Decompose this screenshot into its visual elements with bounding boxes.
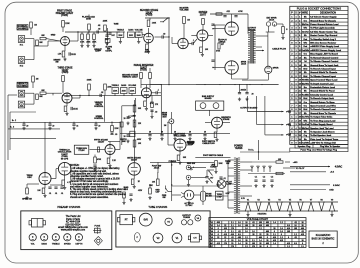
svg-text:GND: GND xyxy=(329,189,334,191)
svg-text:BASS: BASS xyxy=(121,84,127,87)
svg-text:Org: Org xyxy=(304,135,307,137)
svg-text:To Vibrato Channel Input: To Vibrato Channel Input xyxy=(310,75,336,78)
svg-text:20: 20 xyxy=(189,131,191,133)
svg-text:STRIP: STRIP xyxy=(217,197,223,199)
svg-text:22: 22 xyxy=(259,234,261,236)
svg-text:KALAMAZOO: KALAMAZOO xyxy=(316,234,331,237)
svg-text:FOOT SWITCH CABLE: FOOT SWITCH CABLE xyxy=(203,154,224,157)
svg-text:.02: .02 xyxy=(98,29,101,31)
svg-text:.01: .01 xyxy=(61,193,64,195)
svg-text:TREBLE: TREBLE xyxy=(52,244,60,246)
svg-text:and related supplier cross ref: and related supplier cross references. xyxy=(70,185,109,188)
svg-text:35: 35 xyxy=(266,240,268,242)
svg-text:Grn: Grn xyxy=(304,54,307,56)
svg-text:495: 495 xyxy=(266,243,269,245)
svg-text:VOLUME: VOLUME xyxy=(135,30,144,32)
svg-text:165: 165 xyxy=(294,228,297,230)
svg-text:TRANS: TRANS xyxy=(235,147,243,150)
svg-text:+495: +495 xyxy=(286,111,292,113)
svg-text:460: 460 xyxy=(301,228,304,230)
svg-text:28: 28 xyxy=(245,240,247,242)
svg-text:1.2: 1.2 xyxy=(245,246,248,248)
svg-text:-52: -52 xyxy=(238,231,241,233)
svg-text:20: 20 xyxy=(98,126,100,128)
svg-text:CABLE PLUG: CABLE PLUG xyxy=(272,47,286,50)
svg-text:Blk: Blk xyxy=(304,35,307,37)
svg-text:SPEED: SPEED xyxy=(64,244,71,246)
svg-text:220K: 220K xyxy=(103,21,108,23)
svg-text:+460VDC Screen Supply Lead: +460VDC Screen Supply Lead xyxy=(310,49,342,52)
svg-text:TREBLE: TREBLE xyxy=(117,30,125,32)
svg-text:OUTPUT BOARD: OUTPUT BOARD xyxy=(240,106,257,109)
svg-text:28: 28 xyxy=(259,246,261,248)
svg-text:100K: 100K xyxy=(152,23,157,25)
svg-text:V2: V2 xyxy=(257,200,259,202)
svg-text:BOARD: BOARD xyxy=(205,97,213,100)
svg-text:C1: C1 xyxy=(255,177,257,179)
svg-text:STAGE: STAGE xyxy=(223,118,230,121)
svg-text:18: 18 xyxy=(301,222,303,224)
svg-text:VOLUME: VOLUME xyxy=(128,85,137,87)
svg-text:Blu: Blu xyxy=(304,57,307,59)
svg-text:ohm/volt VTVM meter set accord: ohm/volt VTVM meter set accordingly. xyxy=(70,180,109,183)
svg-text:170: 170 xyxy=(224,243,227,245)
svg-text:0: 0 xyxy=(274,231,275,233)
svg-text:170: 170 xyxy=(252,246,255,248)
svg-text:0.9: 0.9 xyxy=(287,225,290,227)
svg-text:(7025): (7025) xyxy=(62,72,69,74)
svg-text:1.6: 1.6 xyxy=(238,225,241,227)
svg-text:25/25: 25/25 xyxy=(73,109,78,111)
svg-text:20: 20 xyxy=(252,94,254,96)
svg-text:Footswitch Return Lead: Footswitch Return Lead xyxy=(310,86,335,89)
svg-text:Speed Control Wiper Lead: Speed Control Wiper Lead xyxy=(310,79,338,82)
svg-text:495: 495 xyxy=(238,237,241,239)
svg-text:TO PILOT: TO PILOT xyxy=(295,168,305,170)
svg-text:100K: 100K xyxy=(87,80,92,82)
svg-text:20: 20 xyxy=(204,131,206,133)
svg-text:2.1: 2.1 xyxy=(273,234,276,236)
svg-text:.05: .05 xyxy=(115,134,118,136)
svg-text:Blk: Blk xyxy=(304,17,307,19)
svg-text:To Trem Bug Lamp Lead: To Trem Bug Lamp Lead xyxy=(310,120,336,122)
svg-text:120PF: 120PF xyxy=(95,51,101,53)
svg-text:35: 35 xyxy=(231,243,233,245)
svg-text:415: 415 xyxy=(224,234,227,236)
svg-text:12AT7: 12AT7 xyxy=(200,13,207,16)
svg-text:2.1: 2.1 xyxy=(231,222,234,224)
svg-text:Wht: Wht xyxy=(304,119,308,122)
svg-text:1.4: 1.4 xyxy=(273,222,276,224)
svg-text:0: 0 xyxy=(267,246,268,248)
svg-text:28: 28 xyxy=(252,234,254,236)
svg-text:28: 28 xyxy=(301,225,303,227)
svg-text:(7025): (7025) xyxy=(146,15,153,17)
svg-text:18: 18 xyxy=(301,240,303,242)
svg-text:1.6: 1.6 xyxy=(238,222,241,224)
svg-text:12AX7: 12AX7 xyxy=(131,159,138,162)
svg-text:Blk: Blk xyxy=(304,131,307,133)
svg-text:+495VDC Plate Supply Lead: +495VDC Plate Supply Lead xyxy=(310,45,339,48)
svg-text:20/450: 20/450 xyxy=(241,89,247,91)
svg-text:Intensity Control Lead: Intensity Control Lead xyxy=(310,93,334,96)
svg-text:2.1: 2.1 xyxy=(231,225,234,227)
svg-text:V6: V6 xyxy=(299,200,301,202)
svg-text:.01: .01 xyxy=(49,193,52,195)
svg-text:Wht: Wht xyxy=(304,42,308,45)
svg-text:20: 20 xyxy=(52,126,54,128)
svg-text:6V6: 6V6 xyxy=(144,220,149,222)
svg-text:IN 1: IN 1 xyxy=(20,44,23,46)
svg-text:Ground Return To Buss: Ground Return To Buss xyxy=(310,101,335,104)
svg-text:Blk: Blk xyxy=(304,113,307,115)
svg-text:Blu: Blu xyxy=(304,139,307,141)
svg-text:BASS 30 SCHEMATIC: BASS 30 SCHEMATIC xyxy=(312,238,335,241)
svg-text:25/25: 25/25 xyxy=(71,54,76,56)
svg-text:1.2: 1.2 xyxy=(245,237,248,239)
svg-text:1.6: 1.6 xyxy=(238,240,241,242)
svg-text:28: 28 xyxy=(259,243,261,245)
svg-text:CONTROL: CONTROL xyxy=(94,106,104,108)
svg-text:28: 28 xyxy=(252,225,254,227)
svg-text:ADJ: ADJ xyxy=(124,188,128,191)
svg-text:.047: .047 xyxy=(111,35,115,37)
svg-text:6.3VAC: 6.3VAC xyxy=(333,184,341,187)
svg-text:415: 415 xyxy=(287,243,290,245)
svg-text:Shld: Shld xyxy=(303,68,307,70)
svg-text:170: 170 xyxy=(231,246,234,248)
svg-text:V9: V9 xyxy=(331,200,333,202)
svg-text:V8: V8 xyxy=(320,200,322,202)
svg-text:415: 415 xyxy=(273,240,276,242)
svg-text:250K: 250K xyxy=(121,141,126,143)
svg-text:To Pilot Light Assembly: To Pilot Light Assembly xyxy=(310,27,335,30)
svg-text:Blk/Grn: Blk/Grn xyxy=(302,24,309,26)
svg-text:V7: V7 xyxy=(310,200,312,202)
svg-text:+430: +430 xyxy=(286,135,292,137)
svg-text:28: 28 xyxy=(231,240,233,242)
svg-text:chassis and control panel asse: chassis and control panel assemblies. xyxy=(70,196,109,199)
svg-text:Red: Red xyxy=(303,46,307,48)
svg-text:410: 410 xyxy=(273,237,276,239)
svg-text:-52: -52 xyxy=(252,222,255,224)
svg-text:Grn/Red: Grn/Red xyxy=(302,124,310,126)
svg-text:0: 0 xyxy=(225,240,226,242)
svg-text:18: 18 xyxy=(245,222,247,224)
svg-text:TONE: TONE xyxy=(114,24,120,26)
svg-text:.01: .01 xyxy=(55,193,58,195)
svg-text:495: 495 xyxy=(217,222,220,224)
svg-text:470K: 470K xyxy=(238,11,243,13)
svg-text:Red: Red xyxy=(303,39,307,41)
svg-text:Ground Buss To Chassis: Ground Buss To Chassis xyxy=(310,113,337,115)
svg-text:Grn/Yel: Grn/Yel xyxy=(302,31,309,33)
svg-text:www.parts-ampfix.com: www.parts-ampfix.com xyxy=(61,229,85,232)
svg-text:.01: .01 xyxy=(223,178,225,180)
svg-text:1.4: 1.4 xyxy=(259,240,262,242)
svg-text:Bias Supply -52V To Board: Bias Supply -52V To Board xyxy=(310,54,338,56)
svg-text:1.6: 1.6 xyxy=(245,231,248,233)
svg-text:Wht: Wht xyxy=(304,27,308,30)
svg-text:6.3 VAC Heater Center Tap: 6.3 VAC Heater Center Tap xyxy=(310,30,338,33)
svg-text:1.2: 1.2 xyxy=(280,222,283,224)
svg-text:1M: 1M xyxy=(187,20,190,22)
svg-text:IN 2: IN 2 xyxy=(20,65,23,67)
svg-text:Shld: Shld xyxy=(303,109,307,111)
svg-text:-52: -52 xyxy=(294,237,297,239)
svg-text:170: 170 xyxy=(231,228,234,230)
svg-text:OSC: OSC xyxy=(27,177,32,179)
svg-text:COUPL: COUPL xyxy=(105,51,112,53)
svg-text:PLUG: PLUG xyxy=(188,144,194,146)
svg-text:60 CPS: 60 CPS xyxy=(61,158,69,160)
svg-text:1.2: 1.2 xyxy=(294,234,297,236)
svg-text:0: 0 xyxy=(302,243,303,245)
svg-text:attach to amp knob, everything: attach to amp knob, everything understan… xyxy=(70,191,122,194)
svg-text:1.4: 1.4 xyxy=(217,225,220,227)
svg-text:165: 165 xyxy=(259,222,262,224)
svg-text:1.6: 1.6 xyxy=(280,228,283,230)
svg-text:410: 410 xyxy=(259,225,262,227)
svg-text:V1: V1 xyxy=(247,200,249,202)
svg-text:Wht/Blk: Wht/Blk xyxy=(302,79,309,82)
svg-text:18: 18 xyxy=(294,225,296,227)
svg-text:28: 28 xyxy=(273,228,275,230)
svg-text:2.1: 2.1 xyxy=(252,240,255,242)
svg-text:460: 460 xyxy=(259,237,262,239)
svg-text:6. Plug and socket list are q: 6. Plug and socket list are quoted numbe… xyxy=(70,193,127,196)
svg-text:To Bias Supply Board: To Bias Supply Board xyxy=(310,124,333,126)
svg-text:495: 495 xyxy=(266,225,269,227)
svg-text:DESIGNATION: DESIGNATION xyxy=(320,12,336,15)
svg-text:PLUG & SOCKET CONNECTIONS: PLUG & SOCKET CONNECTIONS xyxy=(297,7,342,11)
svg-text:VTL5C: VTL5C xyxy=(78,150,85,152)
svg-text:NOTES:: NOTES: xyxy=(70,164,80,167)
svg-text:22: 22 xyxy=(217,237,219,239)
svg-text:0: 0 xyxy=(267,237,268,239)
svg-text:-52: -52 xyxy=(301,231,304,233)
svg-text:To Reverb Channel Input: To Reverb Channel Input xyxy=(310,67,336,70)
svg-text:-52V: -52V xyxy=(138,190,143,192)
svg-text:12AX7: 12AX7 xyxy=(98,141,105,144)
svg-text:0: 0 xyxy=(218,228,219,230)
svg-text:+495: +495 xyxy=(293,162,299,164)
svg-text:GND SW: GND SW xyxy=(187,163,195,165)
svg-text:Shld: Shld xyxy=(303,76,307,78)
svg-text:1.4: 1.4 xyxy=(273,243,276,245)
svg-text:Red/Blk: Red/Blk xyxy=(302,94,309,96)
svg-text:1.2: 1.2 xyxy=(280,237,283,239)
svg-text:0: 0 xyxy=(218,234,219,236)
svg-text:0: 0 xyxy=(218,231,219,233)
svg-text:1.2: 1.2 xyxy=(287,246,290,248)
svg-text:4. Use parts list for all com: 4. Use parts list for all component part… xyxy=(70,183,119,186)
svg-text:(7025): (7025) xyxy=(61,15,68,17)
svg-text:.1: .1 xyxy=(193,40,195,42)
svg-text:1.6: 1.6 xyxy=(252,231,255,233)
svg-text:4.8VAC: 4.8VAC xyxy=(335,165,343,168)
svg-text:V4: V4 xyxy=(278,200,280,202)
svg-text:Brn: Brn xyxy=(304,87,307,89)
svg-text:16: 16 xyxy=(76,126,78,128)
svg-text:.02: .02 xyxy=(163,34,166,36)
svg-text:BASS: BASS xyxy=(128,29,134,32)
svg-text:Brn/Wht: Brn/Wht xyxy=(302,116,310,119)
svg-text:Plate Lead To Output Trans: Plate Lead To Output Trans xyxy=(310,138,339,141)
svg-text:Power Plug 1 & 2 Wired To Volt: Power Plug 1 & 2 Wired To Voltage Plug xyxy=(301,149,337,152)
svg-text:CH: CH xyxy=(193,238,197,240)
svg-text:415: 415 xyxy=(217,243,220,245)
svg-text:.02: .02 xyxy=(98,25,101,27)
svg-text:Ground Shield To Panel: Ground Shield To Panel xyxy=(310,91,335,93)
svg-text:0: 0 xyxy=(288,237,289,239)
svg-text:JACK: JACK xyxy=(241,63,247,66)
svg-text:Grn: Grn xyxy=(304,102,307,104)
svg-text:absolute supplies measured at: absolute supplies measured at wall. xyxy=(70,170,107,173)
svg-text:HEATERS: HEATERS xyxy=(258,213,267,216)
svg-text:0.9: 0.9 xyxy=(294,243,297,245)
svg-text:WIRE: WIRE xyxy=(302,13,308,15)
svg-text:500: 500 xyxy=(106,39,109,41)
svg-text:To Speaker Jack Sleeve: To Speaker Jack Sleeve xyxy=(310,131,335,133)
svg-text:2.1: 2.1 xyxy=(301,246,304,248)
svg-text:Grn: Grn xyxy=(304,20,307,22)
svg-text:20: 20 xyxy=(26,126,28,128)
svg-text:415: 415 xyxy=(301,234,304,236)
svg-text:22: 22 xyxy=(224,225,226,227)
svg-text:1M: 1M xyxy=(34,25,37,27)
svg-text:460: 460 xyxy=(266,231,269,233)
svg-text:0.9: 0.9 xyxy=(238,234,241,236)
svg-text:410: 410 xyxy=(231,234,234,236)
svg-text:.02: .02 xyxy=(155,112,158,114)
svg-text:.022: .022 xyxy=(226,11,230,13)
svg-text:Speaker Jack Tip Lead: Speaker Jack Tip Lead xyxy=(310,128,334,130)
svg-text:VOLUME: VOLUME xyxy=(179,10,189,12)
svg-text:C2: C2 xyxy=(263,177,265,179)
svg-text:Blk: Blk xyxy=(304,65,307,67)
svg-text:Blk: Blk xyxy=(304,72,307,74)
svg-text:Ground Buss To Input Jack: Ground Buss To Input Jack xyxy=(310,64,339,67)
svg-text:.02: .02 xyxy=(101,92,104,94)
svg-text:V5: V5 xyxy=(289,200,291,202)
svg-text:2. All capacitors are in mfd: 2. All capacitors are in mfd volts decim… xyxy=(70,172,120,175)
svg-text:SPKR: SPKR xyxy=(273,68,279,70)
svg-text:0: 0 xyxy=(281,234,282,236)
svg-text:1.2: 1.2 xyxy=(259,228,262,230)
svg-text:To Ext Speaker Jack: To Ext Speaker Jack xyxy=(310,134,332,137)
svg-text:To Reverb Channel Lead: To Reverb Channel Lead xyxy=(310,109,336,111)
svg-text:6.3 Volt AC Heater Supply: 6.3 Volt AC Heater Supply xyxy=(310,16,337,19)
svg-text:otherwise specified herein not: otherwise specified herein noted. xyxy=(70,175,104,178)
svg-text:To Normal Channel Control: To Normal Channel Control xyxy=(310,56,338,59)
svg-text:BASS: BASS xyxy=(42,243,48,246)
svg-text:+460: +460 xyxy=(286,124,292,126)
svg-text:495: 495 xyxy=(266,222,269,224)
svg-text:TUBE CHASSIS: TUBE CHASSIS xyxy=(148,205,167,209)
svg-text:To Reverb Output Jack: To Reverb Output Jack xyxy=(310,97,334,100)
svg-text:400V: 400V xyxy=(137,139,142,141)
svg-text:DEPTH: DEPTH xyxy=(76,244,83,246)
svg-text:Speed Control Lead Wire: Speed Control Lead Wire xyxy=(310,105,337,108)
svg-text:Gry: Gry xyxy=(304,106,307,108)
svg-text:BUG: BUG xyxy=(162,116,167,118)
svg-text:20: 20 xyxy=(123,118,125,120)
svg-text:.1: .1 xyxy=(157,89,159,91)
svg-text:Ground Shield To Chassis: Ground Shield To Chassis xyxy=(310,72,338,74)
svg-text:PREAMP CHASSIS: PREAMP CHASSIS xyxy=(57,205,80,209)
svg-text:410: 410 xyxy=(287,228,290,230)
svg-text:CABLE PLUG: CABLE PLUG xyxy=(202,142,215,145)
svg-text:22: 22 xyxy=(224,237,226,239)
svg-text:165: 165 xyxy=(245,225,248,227)
svg-text:VIBRATO 12AX7: VIBRATO 12AX7 xyxy=(122,76,138,79)
svg-text:2.1: 2.1 xyxy=(231,231,234,233)
svg-text:1.6: 1.6 xyxy=(245,228,248,230)
svg-text:V3: V3 xyxy=(268,200,270,202)
svg-text:Blu/Wht: Blu/Wht xyxy=(302,82,309,85)
svg-text:LAMP: LAMP xyxy=(226,183,232,186)
svg-text:Power Ground Return Lead: Power Ground Return Lead xyxy=(310,23,339,26)
svg-text:To Depth Control Lead: To Depth Control Lead xyxy=(310,82,334,85)
svg-text:CONTROL: CONTROL xyxy=(94,118,104,120)
svg-text:Shld: Shld xyxy=(303,98,307,100)
svg-text:JACK: JACK xyxy=(154,167,160,170)
svg-text:100K: 100K xyxy=(86,19,91,21)
svg-text:(7025): (7025) xyxy=(140,70,147,72)
svg-text:.047: .047 xyxy=(210,178,214,180)
svg-text:TRANS: TRANS xyxy=(183,216,191,219)
svg-text:To Standby Switch Lug 2: To Standby Switch Lug 2 xyxy=(310,38,336,41)
svg-text:-52: -52 xyxy=(231,237,234,239)
svg-text:Blk: Blk xyxy=(304,91,307,93)
svg-text:1M: 1M xyxy=(36,79,39,81)
svg-text:Ground Buss To Chassis: Ground Buss To Chassis xyxy=(310,20,337,22)
svg-text:SW: SW xyxy=(56,61,59,63)
svg-text:220K: 220K xyxy=(65,23,70,25)
svg-text:TRANS: TRANS xyxy=(248,29,256,32)
svg-text:To Vibrato Channel Control: To Vibrato Channel Control xyxy=(310,60,338,63)
svg-text:35: 35 xyxy=(266,234,268,236)
svg-text:20: 20 xyxy=(123,136,125,138)
svg-text:1.4: 1.4 xyxy=(238,243,241,245)
svg-text:To Output Tube Grids: To Output Tube Grids xyxy=(310,116,333,119)
svg-text:Blk/Red: Blk/Red xyxy=(302,128,309,130)
svg-text:165: 165 xyxy=(287,231,290,233)
svg-text:Heater Center Tap Ground: Heater Center Tap Ground xyxy=(310,34,338,37)
svg-text:1.6: 1.6 xyxy=(280,231,283,233)
svg-text:SPEED 1M: SPEED 1M xyxy=(22,199,32,201)
svg-text:JACK: JACK xyxy=(269,19,275,22)
svg-text:415: 415 xyxy=(280,240,283,242)
svg-text:-52: -52 xyxy=(294,222,297,224)
svg-text:GRID: GRID xyxy=(51,35,56,37)
svg-text:0: 0 xyxy=(225,231,226,233)
svg-text:20: 20 xyxy=(174,131,176,133)
svg-text:28: 28 xyxy=(245,243,247,245)
svg-text:SW: SW xyxy=(162,197,165,199)
svg-text:Red/Wht: Red/Wht xyxy=(301,49,309,52)
svg-text:TREBLE: TREBLE xyxy=(112,85,120,87)
svg-text:3. All voltages measured to g: 3. All voltages measured to ground with … xyxy=(70,178,120,181)
svg-text:20: 20 xyxy=(149,131,151,133)
svg-text:5. The amp vibrato speed cont: 5. The amp vibrato speed control is in l… xyxy=(70,188,126,191)
svg-text:C3: C3 xyxy=(271,177,273,179)
svg-text:SW: SW xyxy=(226,163,229,165)
svg-text:560 ohm Screen Resistor: 560 ohm Screen Resistor xyxy=(310,42,336,45)
svg-text:TO B+: TO B+ xyxy=(248,150,255,152)
svg-text:165: 165 xyxy=(252,243,255,245)
